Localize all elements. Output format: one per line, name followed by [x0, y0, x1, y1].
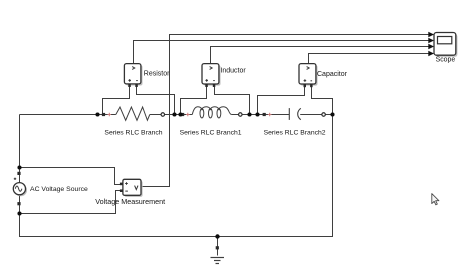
svg-text:Inductor: Inductor	[220, 68, 246, 75]
svg-text:Series RLC Branch1: Series RLC Branch1	[180, 129, 242, 136]
svg-text:AC Voltage Source: AC Voltage Source	[30, 186, 88, 193]
svg-text:Scope: Scope	[436, 57, 456, 64]
svg-text:Series RLC Branch: Series RLC Branch	[104, 129, 162, 136]
svg-text:Series RLC Branch2: Series RLC Branch2	[264, 130, 326, 137]
svg-text:Voltage Measurement: Voltage Measurement	[95, 197, 165, 206]
svg-text:Capacitor: Capacitor	[317, 71, 348, 78]
svg-text:Resistor: Resistor	[144, 71, 170, 78]
